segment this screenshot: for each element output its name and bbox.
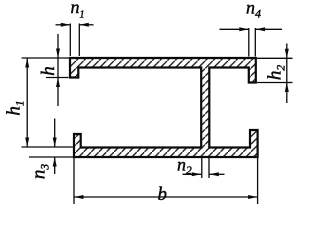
profile cross-section (hatched section body) [70, 58, 258, 157]
dimension h (top-left lip depth) [46, 34, 69, 106]
dimension h2 (top-right lip depth) [257, 44, 293, 104]
svg-text:h: h [38, 66, 59, 76]
dimension n2 (web thickness) [183, 158, 225, 178]
dimension h1 (left overall height) [22, 58, 73, 147]
dimension b (overall width) [74, 158, 258, 204]
dimension n1 (top-left lip width) [56, 23, 94, 56]
svg-text:b: b [158, 184, 168, 205]
dimension n3 (bottom flange thickness) [29, 119, 73, 175]
dimension n4 (top-right lip width) [220, 27, 283, 56]
